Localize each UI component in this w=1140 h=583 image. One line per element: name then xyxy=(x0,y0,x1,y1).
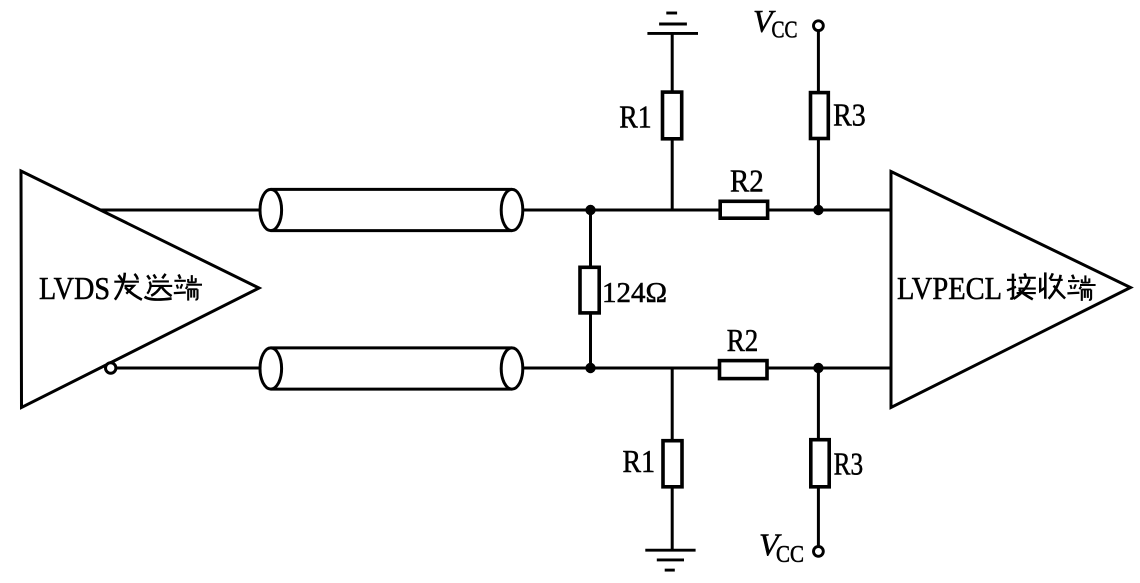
wire R2 to U2 (top) xyxy=(768,209,891,212)
receiver triangle U2 LVPECL receiver xyxy=(891,172,1131,408)
svg-text:CC: CC xyxy=(776,542,804,568)
wire node A to RT xyxy=(589,210,592,267)
wire R3 (top) to node B xyxy=(817,139,820,211)
resistor RT 124 ohm body xyxy=(580,267,599,313)
wire node D to R3 (bottom) xyxy=(817,368,820,440)
svg-text:CC: CC xyxy=(772,18,798,44)
wire U1 output to T1 xyxy=(100,209,260,212)
resistor R3 (bottom) body xyxy=(811,440,829,487)
svg-text:R2: R2 xyxy=(727,323,759,358)
wire T1 to R2 (top), with taps xyxy=(523,209,720,212)
VCC terminal (bottom) xyxy=(814,547,824,557)
label 端 (U2) xyxy=(1067,275,1095,301)
label 端 (U1) xyxy=(174,275,202,301)
node A junction dot (124 ohm top) xyxy=(585,205,595,215)
svg-text:LVPECL: LVPECL xyxy=(897,270,1002,306)
node D junction dot (R3 bottom tap) xyxy=(813,363,823,373)
wire ground to R1 (top) xyxy=(671,33,674,92)
wire R1 (bottom) to ground xyxy=(671,487,674,550)
svg-text:R3: R3 xyxy=(834,447,864,482)
wire bottom net to R1 (bottom) xyxy=(671,368,674,441)
svg-text:R1: R1 xyxy=(619,99,651,134)
transmission line T1 (top) xyxy=(260,189,523,230)
resistor R1 (top) body xyxy=(663,92,682,139)
svg-text:LVDS: LVDS xyxy=(39,270,110,306)
wire VCC to R3 (top) xyxy=(817,31,820,93)
svg-text:R2: R2 xyxy=(730,163,764,198)
label 收 (U2) xyxy=(1040,272,1065,298)
node B junction dot (R3 top tap) xyxy=(813,205,823,215)
ground (bottom) xyxy=(645,550,695,570)
svg-text:R1: R1 xyxy=(623,444,656,479)
wire R1 (top) to top net xyxy=(671,139,674,210)
wire R2 to U2 (bottom) xyxy=(767,367,891,370)
resistor R1 (bottom) body xyxy=(663,441,682,487)
driver triangle U1 LVDS transmitter xyxy=(21,171,259,408)
wire T2 to R2 (bottom), with taps xyxy=(523,367,720,370)
transmission line T2 (bottom) xyxy=(260,348,523,389)
label 接 (U2) xyxy=(1007,273,1036,299)
wire RT to node C xyxy=(589,313,592,368)
wire U1 inverted output to T2 xyxy=(117,367,261,370)
svg-text:R3: R3 xyxy=(833,98,866,133)
label 发 (U1) xyxy=(114,273,142,300)
ground (top, inverted) xyxy=(647,13,698,33)
wire R3 (bottom) to VCC xyxy=(817,487,820,547)
resistor R3 (top) body xyxy=(811,93,829,139)
label 送 (U1) xyxy=(145,274,173,300)
resistor R2 (bottom) body xyxy=(720,361,768,379)
VCC terminal (top) xyxy=(814,21,824,31)
inversion bubble on U1 inverted output xyxy=(106,363,116,373)
resistor R2 (top) body xyxy=(720,201,767,218)
svg-text:124Ω: 124Ω xyxy=(602,278,667,309)
node C junction dot (124 ohm bottom) xyxy=(585,363,595,373)
